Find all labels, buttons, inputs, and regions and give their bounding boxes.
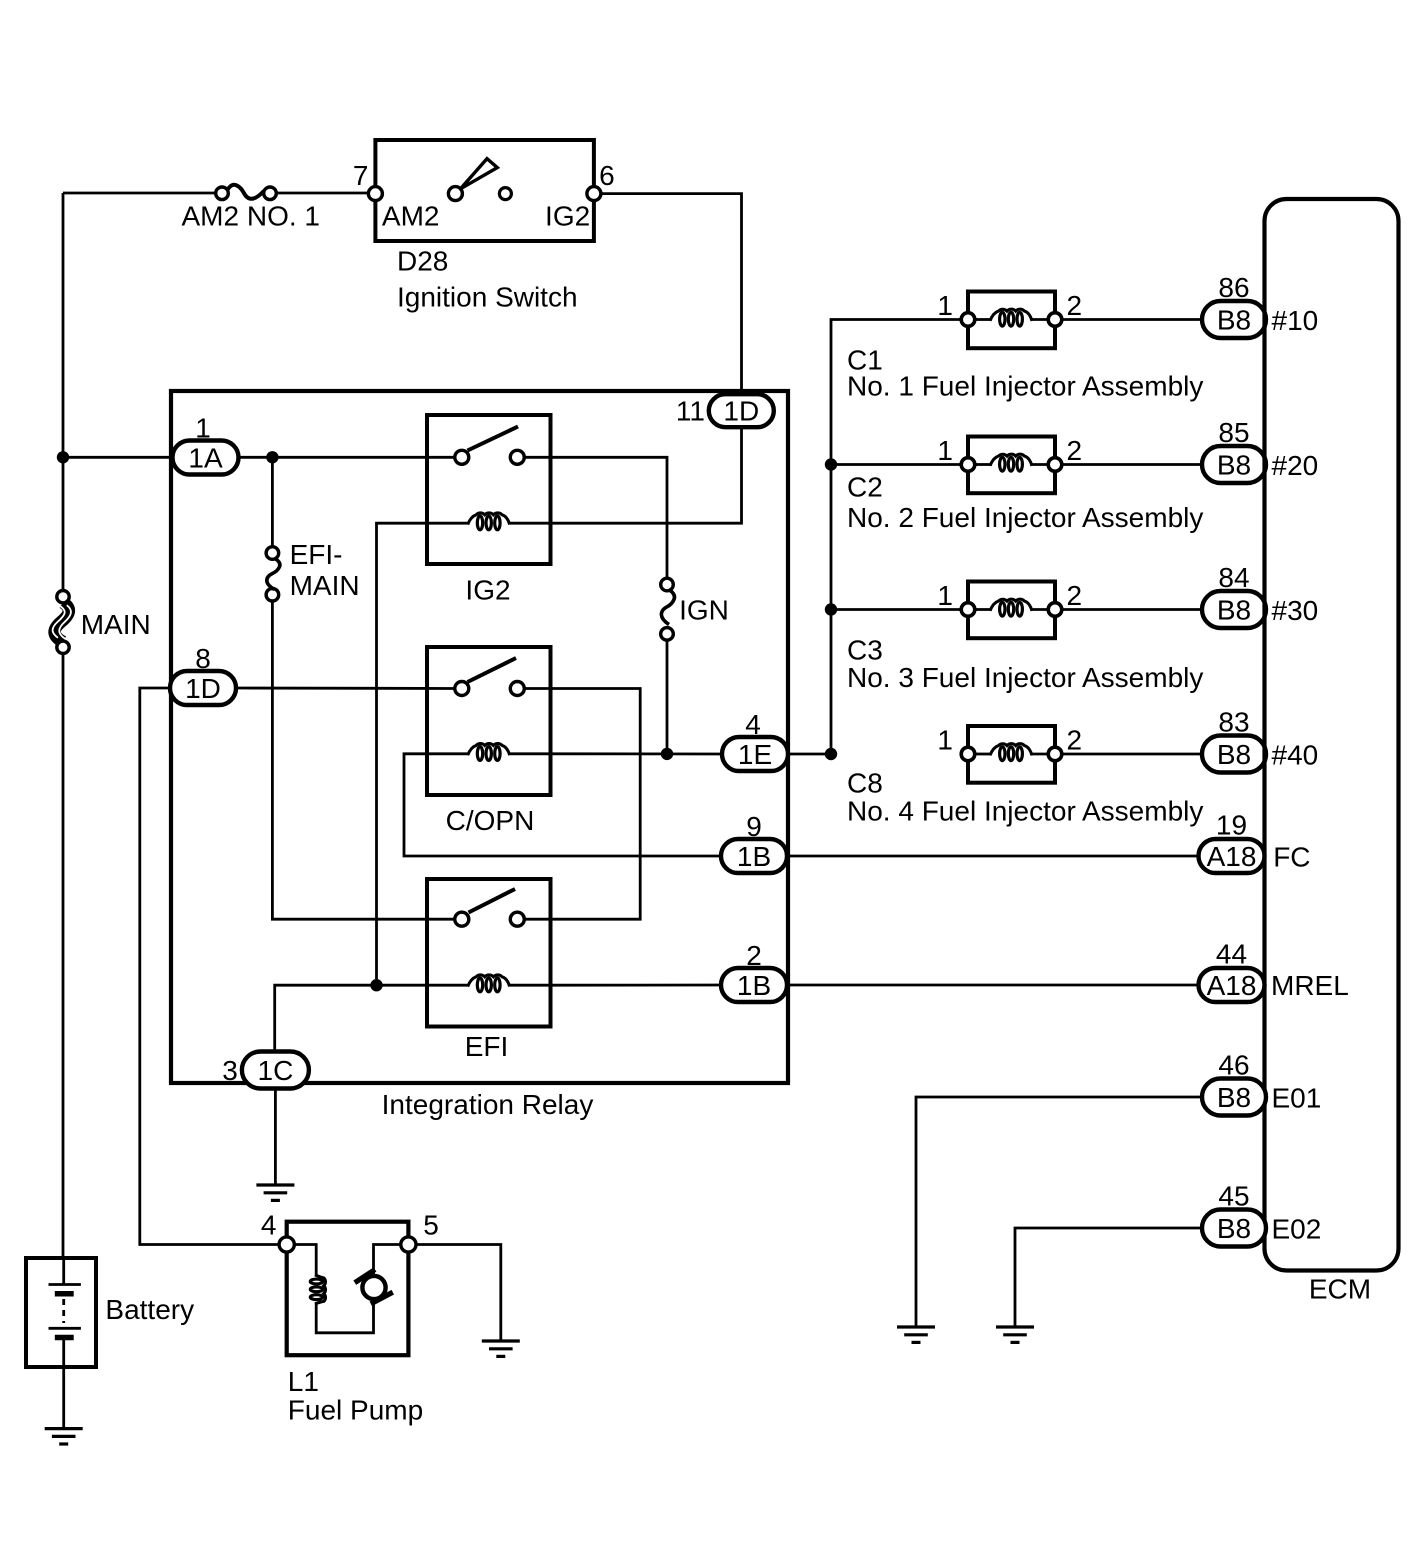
connector 1B pin 2: [721, 968, 787, 1002]
relay IG2 coil: [468, 513, 510, 530]
svg-text:IG2: IG2: [465, 575, 510, 606]
injector C3 pin 1: [961, 603, 975, 617]
injector C8 pin 2: [1048, 747, 1062, 761]
junction bus / injector C3: [825, 603, 837, 615]
wire connector 1D pin 8 to fuel pump pin 4: [140, 688, 281, 1245]
wire 1D pin 8 to C/OPN relay switch: [236, 687, 455, 690]
relay C/OPN lever: [468, 658, 517, 682]
svg-text:11: 11: [676, 396, 705, 427]
injector C2 box: [968, 437, 1055, 494]
wire C/OPN relay switch to EFI relay switch: [524, 689, 640, 920]
wire battery feed to fuse AM2 NO. 1: [63, 192, 216, 195]
ground fuel pump: [482, 1341, 520, 1356]
relay EFI contact left: [455, 912, 469, 926]
fuel pump L1 box: [287, 1222, 409, 1356]
connector B8 E01 pin 46: [1202, 1079, 1266, 1116]
svg-text:7: 7: [353, 160, 369, 191]
svg-text:A18: A18: [1207, 841, 1257, 872]
svg-text:1A: 1A: [188, 443, 223, 474]
svg-text:2: 2: [1067, 580, 1083, 611]
wire main vertical feed upper: [62, 193, 65, 597]
ground integration relay: [256, 1185, 294, 1200]
svg-text:85: 85: [1218, 417, 1249, 448]
injector C8 coil: [990, 744, 1032, 761]
svg-text:86: 86: [1218, 272, 1249, 303]
wire 1A to IG2 relay switch: [239, 456, 456, 459]
svg-text:FC: FC: [1273, 842, 1310, 873]
ECM box: [1265, 199, 1399, 1271]
wire IG2 coil lead left: [427, 522, 468, 525]
wire connector 1B pin 9 to ECM FC: [787, 855, 1199, 858]
wire C/OPN coil to connector 1E: [551, 752, 723, 755]
injector C1 pin 2: [1048, 313, 1062, 327]
wire C/OPN coil lead left: [427, 752, 468, 755]
junction IG2 coil / EFI coil: [370, 979, 382, 991]
svg-text:MAIN: MAIN: [81, 609, 151, 640]
svg-text:EFI-: EFI-: [290, 539, 343, 570]
fuel pump motor: [355, 1270, 393, 1304]
svg-text:2: 2: [1067, 435, 1083, 466]
relay C/OPN contact left: [455, 682, 469, 696]
wire pump coil to motor: [316, 1301, 373, 1333]
ignition switch lever: [461, 159, 498, 189]
injector C1 coil: [990, 309, 1032, 326]
injector C2 pin 2: [1048, 458, 1062, 472]
svg-text:84: 84: [1218, 562, 1249, 593]
wire fuel pump pin 5 to ground: [416, 1245, 501, 1342]
wire fuse IGN to node 1E: [666, 640, 669, 754]
svg-text:B8: B8: [1217, 1213, 1251, 1244]
pin 6: [587, 187, 601, 201]
wire EFI coil to connector 1C: [275, 985, 427, 1052]
svg-text:AM2 NO. 1: AM2 NO. 1: [182, 201, 320, 232]
wire bus to injector C3: [831, 608, 961, 611]
wire IG2 coil to connector 1D pin 11: [551, 427, 742, 523]
wire injector C3 pin 1 lead: [975, 608, 990, 611]
svg-text:L1: L1: [288, 1366, 319, 1397]
svg-text:1D: 1D: [723, 396, 759, 427]
wire injector C3 to ECM #30: [1062, 608, 1202, 611]
fuel pump pin 4: [279, 1237, 294, 1252]
svg-text:6: 6: [599, 160, 615, 191]
wire ECM E01 to ground: [916, 1097, 1202, 1327]
injector C3 box: [968, 582, 1055, 639]
wire ignition switch IG2 to integration relay pin 11: [601, 194, 742, 394]
wire injector C2 to ECM #20: [1062, 463, 1202, 466]
svg-text:1: 1: [937, 435, 953, 466]
svg-text:No. 4 Fuel Injector Assembly: No. 4 Fuel Injector Assembly: [847, 796, 1203, 827]
connector B8 #10 pin 86: [1202, 301, 1266, 338]
fuel pump motor windings lead: [294, 1245, 316, 1277]
svg-text:1D: 1D: [185, 673, 221, 704]
wire MAIN link to battery: [62, 648, 65, 1258]
connector 1C pin 3: [242, 1052, 309, 1089]
wire IG2 relay switch to fuse IGN: [524, 457, 667, 578]
injector C8 pin 1: [961, 747, 975, 761]
injector C2 pin 1: [961, 458, 975, 472]
wire feed to connector 1A: [63, 456, 172, 459]
svg-text:E01: E01: [1272, 1083, 1322, 1114]
svg-text:1: 1: [937, 725, 953, 756]
svg-text:Fuel Pump: Fuel Pump: [288, 1394, 423, 1425]
svg-text:#20: #20: [1272, 450, 1319, 481]
connector 1D pin 11: [709, 394, 774, 427]
svg-text:46: 46: [1218, 1050, 1249, 1081]
junction injector bus / node 1E: [825, 748, 837, 760]
svg-text:IG2: IG2: [545, 201, 590, 232]
svg-text:C8: C8: [847, 768, 883, 799]
svg-text:#30: #30: [1272, 595, 1319, 626]
relay C/OPN box: [427, 647, 551, 795]
ignition switch contact AM2: [448, 187, 462, 201]
svg-text:E02: E02: [1272, 1214, 1322, 1245]
integration relay box: [171, 391, 788, 1083]
svg-text:1: 1: [937, 580, 953, 611]
svg-text:No. 2 Fuel Injector Assembly: No. 2 Fuel Injector Assembly: [847, 502, 1203, 533]
svg-text:1B: 1B: [737, 841, 771, 872]
wire ECM E02 to ground: [1015, 1228, 1202, 1327]
svg-text:45: 45: [1218, 1181, 1249, 1212]
connector 1D pin 8: [170, 671, 236, 705]
wire EFI coil lead left: [427, 984, 468, 987]
svg-text:Ignition Switch: Ignition Switch: [397, 281, 578, 312]
relay EFI contact right: [510, 912, 524, 926]
svg-text:4: 4: [745, 709, 761, 740]
relay C/OPN coil: [468, 743, 510, 760]
connector A18 MREL pin 44: [1199, 968, 1265, 1002]
svg-text:3: 3: [222, 1055, 238, 1086]
svg-text:4: 4: [261, 1209, 277, 1240]
wire EFI coil to connector 1B pin 2: [551, 984, 722, 987]
svg-text:44: 44: [1216, 939, 1247, 970]
relay EFI lever: [469, 889, 516, 913]
wire connector 1E to injector bus: [788, 753, 831, 756]
svg-text:Integration Relay: Integration Relay: [382, 1089, 594, 1120]
wire battery to ground: [62, 1367, 65, 1429]
svg-text:1: 1: [195, 413, 211, 444]
svg-text:B8: B8: [1217, 305, 1251, 336]
svg-text:AM2: AM2: [382, 201, 440, 232]
svg-text:9: 9: [746, 811, 762, 842]
svg-text:C2: C2: [847, 472, 883, 503]
wire injector C1 to ECM #10: [1062, 318, 1202, 321]
svg-text:2: 2: [1067, 725, 1083, 756]
wire to fuse EFI-MAIN: [271, 457, 274, 547]
injector C2 coil: [990, 454, 1032, 471]
wire injector C8 to ECM #40: [1062, 753, 1202, 756]
svg-text:5: 5: [423, 1209, 439, 1240]
svg-text:19: 19: [1216, 810, 1247, 841]
pin 7: [368, 187, 382, 201]
svg-text:#10: #10: [1272, 305, 1319, 336]
svg-text:D28: D28: [397, 245, 448, 276]
relay C/OPN contact right: [510, 682, 524, 696]
svg-text:A18: A18: [1207, 970, 1257, 1001]
svg-text:B8: B8: [1217, 1082, 1251, 1113]
svg-text:No. 1 Fuel Injector Assembly: No. 1 Fuel Injector Assembly: [847, 371, 1203, 402]
ignition switch D28 box: [375, 140, 594, 241]
fusible link MAIN: [53, 591, 71, 654]
wire C/OPN coil to connector 1B pin 9: [404, 754, 721, 856]
connector 1B pin 9: [721, 839, 787, 873]
svg-text:B8: B8: [1217, 450, 1251, 481]
connector 1E pin 4: [722, 737, 788, 771]
svg-text:1: 1: [937, 290, 953, 321]
junction battery feed / 1A: [57, 451, 69, 463]
junction 1A / EFI-MAIN fuse: [266, 451, 278, 463]
wire connector 1B pin 2 to ECM MREL: [787, 984, 1199, 987]
svg-text:No. 3 Fuel Injector Assembly: No. 3 Fuel Injector Assembly: [847, 662, 1203, 693]
relay IG2 box: [427, 415, 551, 564]
injector C3 coil: [990, 599, 1032, 616]
svg-text:83: 83: [1218, 707, 1249, 738]
wire connector 1C to ground: [274, 1089, 277, 1186]
connector B8 #30 pin 84: [1202, 591, 1266, 628]
svg-text:ECM: ECM: [1309, 1274, 1371, 1305]
svg-text:1C: 1C: [258, 1055, 294, 1086]
svg-text:IGN: IGN: [679, 595, 729, 626]
svg-text:MREL: MREL: [1271, 970, 1349, 1001]
wire IG2 coil to EFI coil node: [377, 523, 428, 979]
junction bus / injector C2: [825, 458, 837, 470]
svg-text:EFI: EFI: [465, 1031, 509, 1062]
connector B8 E02 pin 45: [1202, 1210, 1266, 1247]
svg-text:C/OPN: C/OPN: [446, 805, 535, 836]
relay IG2 contact right: [510, 450, 524, 464]
wire IG2 coil lead right: [510, 522, 551, 525]
wire injector C1 pin 1 lead: [975, 318, 990, 321]
wire injector C2 pin 1 lead: [975, 463, 990, 466]
svg-text:2: 2: [1067, 290, 1083, 321]
wire motor to pin 5: [374, 1245, 403, 1277]
svg-text:#40: #40: [1272, 740, 1319, 771]
connector 1A pin 1: [173, 441, 239, 475]
wire fuse EFI-MAIN to EFI relay switch: [272, 601, 455, 919]
svg-text:8: 8: [195, 643, 211, 674]
svg-text:1B: 1B: [737, 970, 771, 1001]
wire bus to injector C2: [831, 463, 961, 466]
wire injector C1 pin 2 lead: [1032, 318, 1048, 321]
fuel pump coil: [310, 1275, 325, 1304]
svg-text:1E: 1E: [738, 739, 772, 770]
fuse AM2 NO. 1: [216, 185, 277, 200]
wire injector bus vertical to injector C1: [831, 320, 961, 755]
wire injector C3 pin 2 lead: [1032, 608, 1048, 611]
relay EFI coil: [468, 975, 510, 992]
svg-text:2: 2: [746, 940, 762, 971]
relay IG2 lever: [468, 427, 519, 451]
wire injector C2 pin 2 lead: [1032, 463, 1048, 466]
connector B8 #40 pin 83: [1202, 736, 1266, 773]
connector A18 FC pin 19: [1199, 839, 1265, 873]
svg-text:B8: B8: [1217, 739, 1251, 770]
ground E01: [897, 1327, 935, 1342]
battery: [26, 1258, 96, 1367]
svg-text:Battery: Battery: [105, 1294, 194, 1325]
wire EFI coil lead right: [510, 984, 551, 987]
wire injector C8 pin 1 lead: [975, 753, 990, 756]
ground E02: [996, 1327, 1034, 1342]
injector C1 box: [968, 292, 1055, 349]
wire fuse AM2 NO. 1 to ignition switch pin 7: [276, 192, 369, 195]
svg-text:B8: B8: [1217, 595, 1251, 626]
ground battery: [45, 1429, 83, 1444]
injector C8 box: [968, 726, 1055, 783]
svg-text:MAIN: MAIN: [290, 570, 360, 601]
svg-text:C3: C3: [847, 634, 883, 665]
fuel pump pin 5: [401, 1237, 416, 1252]
relay IG2 contact left: [455, 450, 469, 464]
injector C3 pin 2: [1048, 603, 1062, 617]
fuse EFI-MAIN: [266, 547, 280, 601]
junction IGN fuse / 1E wire: [661, 748, 673, 760]
wire injector C8 pin 2 lead: [1032, 753, 1048, 756]
injector C1 pin 1: [961, 313, 975, 327]
relay EFI box: [427, 879, 551, 1027]
fuse IGN: [661, 578, 675, 640]
connector B8 #20 pin 85: [1202, 446, 1266, 483]
ignition switch contact IG2: [499, 188, 511, 200]
wire C/OPN coil lead right: [510, 752, 551, 755]
